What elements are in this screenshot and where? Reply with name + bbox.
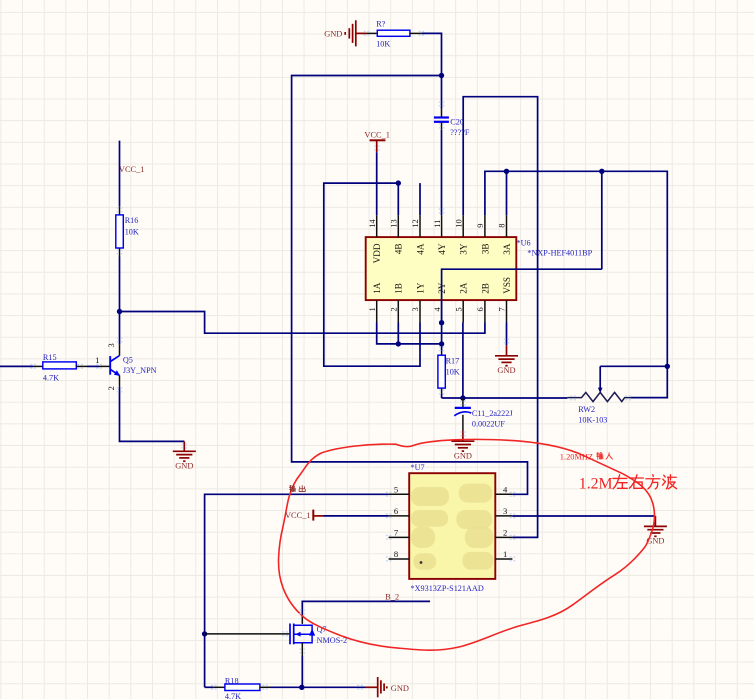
ground GND bottom (rotated) — [366, 677, 409, 697]
transistor Q5 J3Y_NPN — [95, 343, 156, 390]
net label shuchu on U7 pin5 wire — [289, 485, 305, 491]
svg-text:4.7K: 4.7K — [43, 374, 59, 383]
wire Q5 collector — [119, 312, 121, 345]
svg-text:10K: 10K — [125, 227, 139, 236]
svg-text:1.20MHZ: 1.20MHZ — [560, 453, 593, 462]
junction (667.3,366.3) — [665, 364, 670, 369]
wire R16 to collector node — [119, 257, 121, 312]
svg-text:GND: GND — [391, 684, 409, 693]
svg-text:4: 4 — [433, 306, 442, 311]
wire R? to node A — [421, 33, 441, 75]
svg-text:GND: GND — [497, 366, 515, 375]
svg-text:1: 1 — [503, 549, 507, 559]
resistor R18 4.7K — [205, 676, 271, 699]
red annotation text 1.20MHZ input — [560, 452, 613, 461]
capacitor C11_2a222J 0.0022UF — [454, 398, 513, 431]
svg-text:VCC_1: VCC_1 — [285, 511, 311, 520]
wire U6 pins 13,12 to 1Y (pin 3) — [324, 183, 420, 366]
svg-text:14: 14 — [368, 219, 377, 228]
svg-text:GND: GND — [454, 452, 472, 461]
svg-text:1A: 1A — [372, 282, 382, 294]
U7 pin numbers — [394, 484, 508, 559]
svg-text:2B: 2B — [480, 283, 490, 294]
wire U6 pin 5 (2A) down to C11 node — [462, 323, 464, 399]
svg-text:1: 1 — [368, 307, 377, 311]
svg-text:3: 3 — [107, 343, 116, 347]
svg-text:4B: 4B — [394, 244, 404, 255]
svg-text:3Y: 3Y — [459, 243, 469, 255]
svg-text:1: 1 — [95, 356, 99, 365]
wire VCC_1 to R16 — [119, 141, 121, 207]
svg-text:4Y: 4Y — [437, 243, 447, 255]
svg-text:3B: 3B — [480, 244, 490, 255]
wire VCC_1 to U7 pin 6 — [324, 515, 389, 517]
svg-text:5: 5 — [394, 484, 398, 494]
wire R15 to Q5 base — [87, 365, 99, 367]
resistor R? 10K (top) — [367, 20, 422, 49]
junction Q7 gate node (204.6,633.9) — [202, 631, 207, 636]
wire collector node to U6 pin 6 (2B) — [120, 312, 485, 334]
node A junction (441.5,75.5) — [439, 73, 444, 78]
svg-text:10K: 10K — [376, 39, 390, 48]
svg-text:7: 7 — [498, 307, 507, 311]
U6 designator *U6 — [517, 239, 531, 248]
svg-text:11: 11 — [433, 220, 442, 228]
svg-text:VSS: VSS — [502, 277, 512, 294]
red annotation ellipse around U7 — [279, 439, 655, 650]
svg-text:NMOS-2: NMOS-2 — [317, 636, 347, 645]
svg-text:13: 13 — [390, 219, 399, 227]
svg-text:10: 10 — [454, 219, 463, 227]
wire U6 pin 10 (3Y) feedback to U7 pin 2 — [463, 97, 537, 538]
U7 pins — [389, 494, 513, 559]
op-amp U6 *NXP-HEF4011BP quad NAND body — [366, 237, 517, 300]
svg-text:3: 3 — [411, 307, 420, 311]
svg-text:4: 4 — [503, 484, 508, 494]
svg-text:1Y: 1Y — [415, 282, 425, 294]
svg-text:3A: 3A — [502, 243, 512, 255]
power port VCC_1 (above U6 pin 14) — [364, 131, 390, 153]
ground GND below C11 — [451, 431, 474, 461]
svg-text:3: 3 — [503, 506, 507, 516]
svg-text:10K-103: 10K-103 — [578, 416, 607, 425]
svg-text:1.2M: 1.2M — [579, 476, 613, 493]
svg-text:B_2: B_2 — [385, 592, 399, 601]
svg-text:R16: R16 — [125, 216, 139, 225]
svg-text:9: 9 — [476, 224, 485, 228]
svg-text:C20: C20 — [450, 117, 464, 126]
svg-text:0.0022UF: 0.0022UF — [472, 420, 505, 429]
U6 pin names — [372, 243, 512, 294]
svg-text:*U7: *U7 — [411, 463, 425, 472]
ground GND at U6 pin 7 (VSS) — [495, 323, 518, 376]
capacitor C20 ????F — [434, 109, 470, 137]
svg-text:4.7K: 4.7K — [225, 692, 241, 699]
svg-text:C11_2a222J: C11_2a222J — [472, 409, 513, 418]
svg-text:R15: R15 — [43, 353, 57, 362]
wire end snap markers — [30, 31, 631, 690]
svg-text:*X9313ZP-S121AAD: *X9313ZP-S121AAD — [411, 584, 484, 593]
junction collector node (119.5,311.5) — [117, 309, 122, 314]
svg-text:2: 2 — [390, 307, 399, 311]
svg-text:J3Y_NPN: J3Y_NPN — [123, 366, 157, 375]
ground GND right of U7 — [644, 516, 667, 546]
wire R17 bottom to RW2 left — [442, 397, 568, 399]
junction (301.8,687.3) — [299, 685, 304, 690]
svg-text:4A: 4A — [415, 243, 425, 255]
junction C11 node (462.9,398) — [460, 395, 465, 400]
svg-text:R17: R17 — [446, 356, 460, 365]
U7 comment *X9313ZP-S121AAD — [411, 584, 484, 593]
svg-text:R18: R18 — [225, 676, 239, 685]
svg-text:2: 2 — [107, 386, 116, 390]
resistor R16 10K — [116, 206, 139, 256]
wire R18 to source junction and GND — [271, 686, 366, 688]
wire input net to U7 pin 5 and Q7 gate — [205, 494, 389, 687]
svg-text:5: 5 — [454, 307, 463, 311]
svg-text:12: 12 — [411, 219, 420, 227]
wire RW2 wiper to vertical — [600, 365, 667, 367]
transistor Q7 NMOS-2 — [290, 617, 347, 656]
svg-text:GND: GND — [175, 462, 193, 471]
op-amp U7 *X9313ZP-S121AAD body — [409, 473, 495, 579]
U6 comment *NXP-HEF4011BP — [527, 249, 592, 258]
wire U7 pin 3 to ground — [512, 515, 655, 517]
wire node A down to C20 — [441, 76, 443, 109]
wire pins 1,2 to R17 top — [377, 323, 442, 344]
junction at (601.8,171.3) — [599, 169, 604, 174]
wire U6 pin 4 (2Y) crossover to wire B — [442, 269, 602, 322]
wire VCC_1 to U6 pin 14 — [376, 152, 378, 215]
svg-text:2: 2 — [503, 527, 507, 537]
resistor R15 4.7K — [0, 353, 87, 383]
svg-text:8: 8 — [498, 224, 507, 228]
U6 pins (top 14-8, bottom 1-7) — [377, 215, 507, 322]
junction at pin 13 (398.3,183.1) — [396, 180, 401, 185]
net label VCC_1 (left) — [119, 165, 145, 174]
wire Q7 source down — [301, 656, 303, 687]
ground GND below Q5 — [173, 441, 196, 470]
svg-text:Q5: Q5 — [123, 355, 133, 364]
junction at pin 8 (506.5,171.3) — [504, 169, 509, 174]
wire Q5 emitter to GND — [120, 387, 185, 442]
svg-text:2A: 2A — [459, 282, 469, 294]
svg-text:10K: 10K — [446, 368, 460, 377]
svg-text:6: 6 — [476, 307, 485, 311]
svg-text:VCC_1: VCC_1 — [364, 131, 390, 140]
svg-text:RW2: RW2 — [578, 405, 595, 414]
svg-text:7: 7 — [394, 527, 399, 537]
svg-text:VDD: VDD — [372, 243, 382, 263]
svg-text:*U6: *U6 — [517, 239, 531, 248]
wire RW2 right terminal up to wiper junction — [631, 366, 667, 397]
svg-text:6: 6 — [394, 506, 399, 516]
wire Q7 gate — [205, 633, 290, 635]
wire B_2 net to Q7 drain — [302, 601, 430, 617]
U6 pin numbers — [368, 219, 507, 312]
net label B_2 — [385, 592, 399, 601]
potentiometer RW2 10K-103 — [567, 366, 631, 424]
svg-text:VCC_1: VCC_1 — [119, 165, 145, 174]
red annotation text 1.2M square wave — [579, 475, 677, 493]
svg-text:GND: GND — [324, 30, 342, 39]
ground GND (power ground, rotated, top left) — [324, 20, 366, 46]
svg-text:*NXP-HEF4011BP: *NXP-HEF4011BP — [527, 249, 592, 258]
svg-text:8: 8 — [394, 549, 398, 559]
junction R17 top (441.6,343.9) — [439, 341, 444, 346]
junction at pin 4 end (441.6,322.7) — [439, 320, 444, 325]
junction at (398.3,343.9) — [396, 341, 401, 346]
power port VCC_1 at U7 pin 6 — [285, 510, 324, 521]
svg-text:R?: R? — [376, 20, 385, 29]
wire node A left and down to U7 pin 4 route — [292, 76, 528, 495]
U7 designator *U7 — [411, 463, 425, 472]
wire U6 pins 9,8 to RW2 wiper network — [485, 171, 667, 366]
svg-text:1B: 1B — [394, 283, 404, 294]
svg-text:????F: ????F — [450, 128, 470, 137]
wire C20 to U6 pin 11 — [441, 130, 443, 215]
resistor R17 10K — [438, 344, 460, 398]
